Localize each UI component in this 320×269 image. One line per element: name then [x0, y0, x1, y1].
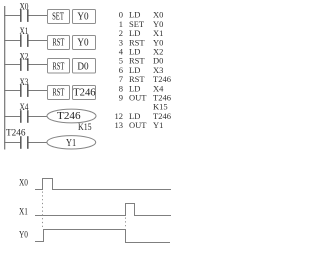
- instruction list: [115, 10, 171, 130]
- svg-text:13: 13: [115, 120, 124, 130]
- svg-text:X0: X0: [19, 179, 28, 189]
- instruction box RST: [48, 59, 70, 74]
- svg-text:X0: X0: [20, 2, 29, 12]
- left power rail: [4, 6, 6, 150]
- svg-text:Y0: Y0: [77, 38, 88, 49]
- operand box Y0: [73, 10, 96, 24]
- svg-text:RST: RST: [53, 38, 65, 49]
- contact T246: [21, 136, 28, 149]
- dashed cursor at X0 rising edge: [42, 192, 44, 229]
- contact X2: [21, 58, 28, 71]
- svg-text:9: 9: [119, 93, 123, 103]
- rung 4 wire left: [4, 90, 21, 92]
- output coil Y1: [47, 136, 96, 149]
- svg-text:T246: T246: [6, 128, 26, 138]
- svg-text:Y0: Y0: [77, 12, 88, 23]
- rung 2 wire right: [29, 40, 48, 42]
- operand box Y0: [73, 36, 96, 50]
- svg-text:T246: T246: [73, 87, 95, 98]
- svg-text:X3: X3: [20, 78, 29, 88]
- rung 5 wire right: [29, 116, 48, 118]
- timer coil T246: [47, 109, 96, 123]
- svg-text:RST: RST: [53, 87, 65, 98]
- svg-text:SET: SET: [52, 12, 64, 23]
- rung 4 wire right: [29, 90, 48, 92]
- contact X1: [21, 34, 28, 47]
- rung 2 wire left: [4, 40, 21, 42]
- dashed cursor at X1 rising edge: [125, 218, 127, 229]
- timing trace X1: [35, 204, 171, 216]
- svg-text:X2: X2: [20, 52, 29, 62]
- svg-text:Y1: Y1: [66, 138, 76, 149]
- svg-text:T246: T246: [57, 111, 81, 122]
- rung 3 wire right: [29, 64, 48, 66]
- svg-text:Y0: Y0: [19, 231, 28, 241]
- operand box T246: [73, 86, 96, 100]
- rung 1 wire left: [4, 15, 21, 17]
- operand box D0: [73, 59, 96, 74]
- svg-text:Y1: Y1: [153, 120, 163, 130]
- svg-text:K15: K15: [78, 123, 92, 133]
- svg-text:X1: X1: [19, 208, 28, 218]
- rung 3 wire left: [4, 64, 21, 66]
- rung 6 wire right: [29, 142, 48, 144]
- svg-text:OUT: OUT: [129, 120, 147, 130]
- timing trace X0: [35, 179, 171, 190]
- instruction box RST: [48, 36, 70, 50]
- instruction box RST: [48, 86, 70, 100]
- rung 6 wire left: [4, 142, 21, 144]
- contact X3: [21, 84, 28, 97]
- svg-text:X4: X4: [20, 103, 29, 113]
- contact X0: [21, 9, 28, 22]
- rung 1 wire right: [29, 15, 48, 17]
- svg-text:X1: X1: [20, 27, 29, 37]
- svg-text:D0: D0: [77, 62, 88, 73]
- svg-text:RST: RST: [53, 62, 65, 73]
- contact X4: [21, 110, 28, 123]
- rung 5 wire left: [4, 116, 21, 118]
- instruction box SET: [48, 10, 70, 24]
- svg-text:OUT: OUT: [129, 93, 147, 103]
- timing trace Y0: [35, 230, 170, 243]
